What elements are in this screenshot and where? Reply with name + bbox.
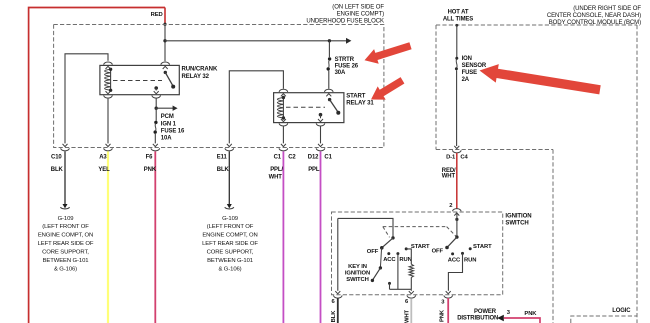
relay START box outline (274, 93, 344, 123)
svg-text:C4: C4 (460, 154, 468, 160)
pin connector start relay coil top (279, 89, 288, 96)
fuse F16 symbol (154, 108, 158, 143)
contact START left deck (405, 247, 408, 250)
svg-text:C1: C1 (274, 155, 282, 161)
label 3 PNK (507, 310, 538, 317)
svg-text:G-109: G-109 (222, 216, 238, 222)
label A3 (99, 155, 107, 161)
wire bus tap down to STRTR fuse (328, 41, 330, 57)
bcm logic section (dashed) (571, 316, 637, 323)
wire bottom run to pin (410, 289, 412, 291)
svg-text:30A: 30A (335, 70, 346, 76)
pin connector relay NO bottom (152, 91, 161, 98)
label KEY IN IGNITION SWITCH (345, 264, 370, 283)
svg-text:& G-106): & G-106) (54, 266, 77, 272)
svg-text:FUSE 16: FUSE 16 (161, 128, 185, 134)
svg-text:CORE SUPPORT,: CORE SUPPORT, (207, 249, 254, 255)
node bus junction B1 (163, 39, 166, 42)
wire bus to STRTR fuse and off-page (165, 38, 351, 44)
label C1 C2 (274, 155, 297, 161)
label PPL/WHT (269, 167, 284, 180)
wire RED drop to fuse block (164, 8, 166, 25)
pin connector relay coil top (104, 62, 113, 69)
wire STRTR fuse to start relay common (328, 71, 330, 89)
wire RUN right deck to pin 3 (448, 253, 462, 290)
svg-text:ACC: ACC (383, 257, 396, 263)
svg-text:CENTER CONSOLE, NEAR DASH): CENTER CONSOLE, NEAR DASH) (547, 13, 641, 19)
svg-text:POWER: POWER (474, 309, 497, 315)
svg-text:SENSOR: SENSOR (462, 63, 487, 69)
svg-text:PPL/: PPL/ (270, 167, 283, 173)
svg-text:YEL: YEL (98, 167, 110, 173)
label OFF (left deck) (367, 249, 379, 255)
node PCM feed junction (155, 107, 158, 110)
connector D12 at fuse block row (316, 144, 325, 151)
label F6 (146, 155, 154, 161)
contact RUN left deck (396, 252, 399, 255)
svg-text:ACC: ACC (448, 258, 461, 264)
wire pin2 to right deck pivot (456, 213, 458, 237)
svg-text:BODY CONTROL MODULE (BCM): BODY CONTROL MODULE (BCM) (549, 20, 641, 26)
svg-text:KEY IN: KEY IN (348, 264, 367, 270)
wire BLK to ground G-109 (middle) (228, 151, 230, 204)
svg-text:RUN: RUN (464, 258, 476, 264)
label D-1 C4 (446, 154, 468, 160)
contact ACC right deck (451, 252, 454, 255)
label START RELAY 31 (346, 93, 374, 106)
connector C10 at fuse block row (61, 144, 70, 151)
wire coil bottom to A3 row (107, 99, 109, 144)
relay RUN/CRANK contact arm (164, 71, 176, 89)
svg-text:& G-106): & G-106) (218, 266, 241, 272)
pin connector relay common top (161, 62, 170, 69)
pin connector start relay coil bottom (279, 119, 288, 126)
label START (left deck) (411, 244, 430, 250)
contact ACC left deck (387, 252, 390, 255)
resistor bypass (left deck) (409, 264, 413, 277)
connector C1 at fuse block row (279, 144, 288, 151)
label BLK (E11) (217, 167, 230, 173)
svg-text:ALL TIMES: ALL TIMES (443, 17, 473, 23)
svg-text:PNK: PNK (524, 311, 537, 317)
svg-text:PPL: PPL (308, 167, 320, 173)
svg-text:10A: 10A (161, 136, 172, 142)
relay RUN/CRANK coil (105, 68, 113, 92)
switch key-in arm (371, 248, 382, 282)
svg-text:BETWEEN G-101: BETWEEN G-101 (207, 258, 253, 264)
wire PNK below ignition switch (447, 298, 449, 323)
svg-text:IGNITION: IGNITION (505, 213, 531, 219)
wire left deck feed (top run) (338, 218, 393, 236)
svg-text:(UNDER RIGHT SIDE OF: (UNDER RIGHT SIDE OF (573, 6, 641, 12)
label HOT AT ALL TIMES (443, 10, 473, 23)
label PCM IGN 1 FUSE 16 10A (161, 114, 185, 141)
label pin 6 middle (405, 299, 409, 305)
annotation arrow to START RELAY 31 (371, 77, 404, 100)
wire feed to ION SENSOR fuse (456, 25, 458, 57)
svg-text:C1: C1 (324, 155, 332, 161)
relay START contact arm (328, 98, 340, 115)
switch left deck arm (380, 236, 395, 249)
svg-text:G-109: G-109 (58, 216, 74, 222)
wire PCM branch arrow (156, 106, 177, 111)
off-page arrow to POWER DISTRIBUTION (497, 315, 504, 322)
svg-text:(LEFT FRONT OF: (LEFT FRONT OF (207, 224, 254, 230)
node RED entry at fuse block edge (163, 23, 166, 26)
svg-text:D-1: D-1 (446, 154, 456, 160)
label pin 3 (441, 299, 445, 305)
connector F6 at fuse block row (151, 144, 160, 151)
pin connector 6 (WHT) (407, 291, 416, 298)
connector E11 at fuse block row (225, 144, 234, 151)
svg-text:RED: RED (151, 12, 163, 18)
annotation arrow to ION SENSOR fuse (480, 64, 601, 94)
svg-text:RUN: RUN (399, 257, 411, 263)
ignition switch enclosure (dashed) (332, 212, 503, 295)
svg-text:(LEFT FRONT OF: (LEFT FRONT OF (42, 224, 89, 230)
contact START right deck (469, 247, 472, 250)
wire START contact to resistor (406, 249, 411, 264)
mechanical linkage (dashed) between decks (383, 227, 457, 238)
node ION feed at BCM edge (455, 24, 458, 27)
label RED (151, 12, 163, 18)
fuse ION SENSOR FUSE 2A symbol (455, 57, 458, 71)
label YEL (A3) (98, 167, 110, 173)
svg-text:FUSE 26: FUSE 26 (335, 63, 359, 69)
ground G-109 left symbol (60, 204, 69, 209)
pin connector start relay common top (325, 89, 334, 96)
svg-text:START: START (346, 93, 366, 99)
wire YEL to bottom (107, 151, 109, 323)
svg-text:(ON LEFT SIDE OF: (ON LEFT SIDE OF (332, 4, 384, 10)
label START (right deck) (473, 244, 492, 250)
label E11 (217, 155, 228, 161)
relay RUN/CRANK NO contact (154, 86, 158, 90)
svg-text:DISTRIBUTION: DISTRIBUTION (457, 315, 498, 321)
svg-text:OFF: OFF (432, 248, 444, 254)
svg-text:OFF: OFF (367, 249, 379, 255)
label body control module (547, 6, 642, 26)
wire resistor to bottom run (410, 277, 412, 289)
svg-text:IGN 1: IGN 1 (161, 121, 177, 127)
svg-text:BLK: BLK (51, 167, 64, 173)
relay RUN/CRANK internal linkage (dashed) (113, 80, 162, 82)
wire NO pin to D12 row (320, 126, 322, 143)
pin connector start relay NO bottom (316, 119, 325, 126)
svg-text:ENGINE COMPT, ON: ENGINE COMPT, ON (38, 232, 93, 238)
svg-text:ENGINE COMPT): ENGINE COMPT) (337, 11, 384, 17)
svg-text:ION: ION (462, 56, 472, 62)
body control module enclosure (dashed) (436, 25, 637, 323)
label G-109 middle (202, 216, 258, 272)
wire BLK below ignition switch (337, 298, 339, 323)
svg-text:E11: E11 (217, 155, 228, 161)
connector D-1 C4 at BCM edge (452, 146, 461, 153)
svg-text:STRTR: STRTR (335, 57, 355, 63)
connector A3 at fuse block row (104, 144, 113, 151)
svg-text:PNK: PNK (144, 167, 157, 173)
fuse STRTR FUSE 26 30A symbol (327, 57, 332, 70)
wire WHT below ignition switch (410, 298, 412, 323)
label BLK (C10) (51, 167, 64, 173)
contact RUN right deck (461, 252, 464, 255)
node pin2 junction (455, 218, 458, 221)
wire left deck feed (down leg) (337, 218, 339, 290)
svg-text:WHT: WHT (442, 173, 456, 179)
label WHT vertical (404, 309, 410, 323)
svg-text:A3: A3 (99, 155, 107, 161)
label ACC (left deck) (383, 257, 396, 263)
svg-text:BLK: BLK (217, 167, 230, 173)
wire battery feed RED (left border and top run) (29, 8, 165, 323)
svg-text:LEFT REAR SIDE OF: LEFT REAR SIDE OF (202, 241, 258, 247)
svg-text:PNK: PNK (440, 309, 446, 322)
annotation arrow to STRTR fuse (365, 42, 412, 64)
svg-text:PCM: PCM (161, 114, 174, 120)
svg-text:START: START (473, 244, 492, 250)
svg-text:CORE SUPPORT,: CORE SUPPORT, (42, 249, 89, 255)
label BLK vertical (331, 310, 337, 323)
svg-text:C2: C2 (288, 155, 296, 161)
label STRTR FUSE 26 30A (335, 57, 359, 76)
label RUN/CRANK RELAY 32 (182, 67, 218, 80)
wire C10 ground leg (coil top to row) (65, 54, 108, 144)
pin connector 6 (BLK) (334, 291, 343, 298)
svg-text:LOGIC: LOGIC (612, 308, 631, 314)
wire PPL/WHT to bottom (282, 151, 284, 323)
wire NO contact to fuse 16 (155, 88, 157, 108)
label ION SENSOR FUSE 2A (462, 56, 487, 83)
wire coil bottom to C1 row (282, 126, 284, 143)
svg-text:LEFT REAR SIDE OF: LEFT REAR SIDE OF (38, 241, 94, 247)
label G-109 left (38, 216, 94, 272)
svg-text:ENGINE COMPT, ON: ENGINE COMPT, ON (202, 232, 257, 238)
relay K-RUN/CRANK box outline (100, 65, 179, 94)
svg-text:FUSE: FUSE (462, 70, 478, 76)
svg-text:BETWEEN G-101: BETWEEN G-101 (43, 258, 89, 264)
wire ION fuse to BCM bottom connector (456, 70, 458, 146)
relay START internal linkage (dashed) (286, 106, 325, 108)
switch right deck arm (445, 235, 458, 249)
label pin 6 left (331, 299, 335, 305)
wire PNK to power distribution (504, 318, 540, 323)
label PNK vertical (440, 309, 446, 322)
svg-text:RUN/CRANK: RUN/CRANK (182, 67, 218, 73)
svg-text:F6: F6 (146, 155, 154, 161)
svg-text:HOT AT: HOT AT (448, 10, 469, 16)
wire bottom run left deck (390, 288, 412, 290)
label IGNITION SWITCH (505, 213, 531, 226)
svg-text:C10: C10 (51, 155, 62, 161)
underhood fuse block enclosure (dashed) (54, 25, 384, 148)
wire PNK to bottom (154, 151, 156, 323)
wire RUN left deck down (397, 254, 399, 290)
label PNK (F6) (144, 167, 157, 173)
label LOGIC (612, 308, 631, 314)
relay START NO contact (319, 113, 323, 117)
ground G-109 middle symbol (225, 204, 234, 209)
svg-text:WHT: WHT (269, 174, 283, 180)
pin connector relay coil bottom (104, 91, 113, 98)
wire PPL to bottom (320, 151, 322, 323)
wire RED/WHT to ignition switch (456, 153, 458, 209)
wire BLK to ground G-109 (left) (64, 151, 66, 204)
label RED/WHT (442, 168, 456, 179)
svg-text:2A: 2A (462, 77, 470, 83)
label underhood fuse block (306, 4, 384, 24)
node bus junction at STRTR fuse tap (328, 39, 331, 42)
pin connector 3 (PNK) (444, 291, 453, 298)
label RUN (right deck) (464, 258, 476, 264)
label pin 2 (449, 203, 453, 209)
label C10 (51, 155, 62, 161)
svg-text:START: START (411, 244, 430, 250)
svg-text:D12: D12 (308, 155, 319, 161)
wire E11 leg to coil top (229, 71, 283, 144)
pin connector 2 ignition switch (452, 209, 461, 216)
svg-text:RELAY 32: RELAY 32 (182, 74, 210, 80)
label POWER DISTRIBUTION (457, 309, 498, 322)
label OFF (right deck) (432, 248, 444, 254)
label ACC (right deck) (448, 258, 461, 264)
relay START coil (277, 96, 285, 120)
svg-text:UNDERHOOD FUSE BLOCK: UNDERHOOD FUSE BLOCK (306, 19, 384, 25)
label D12 C1 (308, 155, 333, 161)
label RUN (left deck) (399, 257, 411, 263)
wire NO contact to relay pin (320, 115, 322, 119)
label PPL (308, 167, 320, 173)
svg-text:IGNITION: IGNITION (345, 270, 370, 276)
svg-text:RELAY 31: RELAY 31 (346, 101, 374, 107)
wire feed into relay common (164, 24, 166, 61)
svg-text:WHT: WHT (404, 309, 410, 323)
svg-text:SWITCH: SWITCH (346, 277, 368, 283)
svg-text:SWITCH: SWITCH (505, 220, 528, 226)
svg-text:BLK: BLK (331, 310, 337, 323)
contact stub left deck (388, 282, 391, 289)
